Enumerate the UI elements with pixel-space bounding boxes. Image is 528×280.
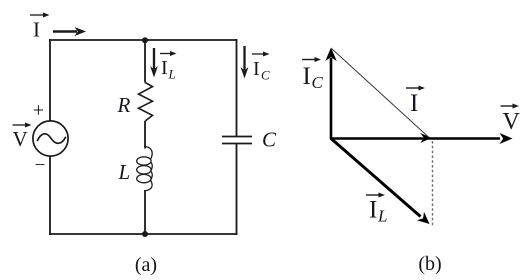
svg-text:C: C bbox=[312, 73, 324, 92]
svg-text:C: C bbox=[262, 128, 277, 152]
label I with vector arrow (top left) bbox=[30, 13, 50, 42]
wire bottom bbox=[49, 233, 238, 235]
phasor I vector bbox=[420, 133, 431, 143]
wire left lower bbox=[49, 156, 51, 235]
svg-text:L: L bbox=[377, 207, 387, 226]
label V with vector arrow bbox=[13, 123, 32, 152]
wire middle mid bbox=[144, 121, 146, 149]
svg-text:I: I bbox=[410, 90, 418, 117]
svg-text:C: C bbox=[261, 68, 270, 83]
svg-text:(a): (a) bbox=[135, 254, 157, 276]
svg-text:−: − bbox=[35, 155, 46, 176]
wire left upper bbox=[49, 39, 51, 122]
node top junction bbox=[142, 37, 148, 43]
svg-text:R: R bbox=[117, 93, 131, 117]
svg-text:I: I bbox=[253, 58, 260, 80]
label IC (phasor) with vector arrow bbox=[302, 57, 324, 92]
current I direction arrow bbox=[53, 27, 86, 36]
svg-text:L: L bbox=[118, 160, 131, 184]
svg-text:I: I bbox=[161, 57, 168, 79]
label V (phasor) with vector arrow bbox=[501, 104, 521, 136]
svg-text:I: I bbox=[369, 197, 377, 224]
svg-text:V: V bbox=[503, 109, 521, 135]
wire middle lower bbox=[144, 190, 146, 234]
current IL annotation arrow bbox=[150, 48, 158, 78]
svg-text:I: I bbox=[33, 18, 40, 42]
wire right lower bbox=[236, 144, 238, 236]
dashed construction line bbox=[432, 141, 434, 227]
inductor L bbox=[146, 147, 153, 159]
svg-text:I: I bbox=[303, 63, 311, 90]
capacitor C bbox=[222, 136, 252, 138]
phasor IC vector bbox=[325, 48, 336, 140]
label IL with vector arrow bbox=[160, 51, 177, 82]
node bottom junction bbox=[142, 231, 148, 237]
source V1 (AC) bbox=[33, 121, 68, 156]
svg-text:L: L bbox=[168, 67, 176, 82]
current IC annotation arrow bbox=[241, 46, 249, 79]
svg-text:V: V bbox=[13, 127, 28, 151]
svg-text:(b): (b) bbox=[418, 253, 441, 275]
resistor R bbox=[139, 83, 153, 122]
label I (phasor) with vector arrow bbox=[406, 86, 425, 118]
construction line from IC tip to I tip bbox=[332, 49, 429, 138]
phasor IL vector bbox=[331, 139, 430, 225]
phasor V vector bbox=[330, 133, 513, 144]
svg-text:+: + bbox=[33, 100, 44, 122]
label IC with vector arrow bbox=[252, 52, 270, 83]
wire right upper bbox=[236, 39, 238, 136]
wire top bbox=[49, 39, 238, 41]
label IL (phasor) with vector arrow bbox=[366, 193, 387, 226]
wire middle upper bbox=[144, 40, 146, 83]
